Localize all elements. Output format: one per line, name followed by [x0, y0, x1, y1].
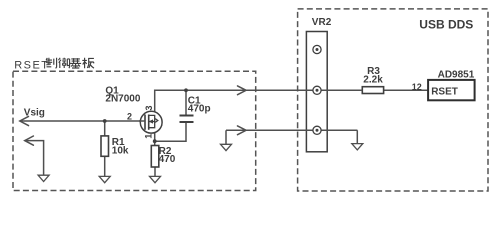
- svg-text:3: 3: [144, 105, 154, 110]
- svg-text:RSET: RSET: [431, 87, 458, 98]
- svg-text:VR2: VR2: [312, 17, 332, 28]
- svg-text:AD9851: AD9851: [438, 70, 475, 81]
- svg-text:10k: 10k: [112, 146, 129, 157]
- svg-text:1: 1: [143, 134, 153, 139]
- svg-text:2.2k: 2.2k: [363, 75, 383, 86]
- svg-text:470p: 470p: [188, 104, 211, 115]
- svg-text:RSET: RSET: [14, 60, 49, 72]
- svg-text:470: 470: [159, 154, 176, 165]
- svg-text:2N7000: 2N7000: [105, 93, 140, 104]
- svg-text:12: 12: [412, 82, 422, 92]
- svg-text:2: 2: [127, 111, 132, 121]
- svg-text:Vsig: Vsig: [24, 107, 45, 118]
- svg-text:USB DDS: USB DDS: [419, 18, 473, 32]
